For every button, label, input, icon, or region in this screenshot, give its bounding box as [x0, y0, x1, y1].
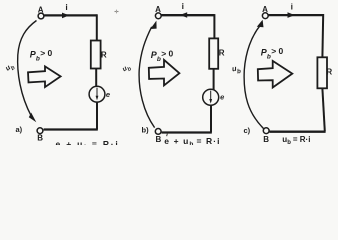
svg-text:a): a): [16, 125, 23, 134]
svg-text:B: B: [37, 134, 43, 143]
wire: source to bottom corner (b): [210, 105, 212, 132]
voltage arc u_b from B to A (c): [244, 20, 263, 129]
EMF source circle with arrow (a): [89, 86, 105, 102]
EMF source circle with arrow (b): [203, 89, 219, 105]
svg-text:R: R: [219, 49, 225, 58]
svg-text:R: R: [326, 67, 332, 76]
block arrow (c): [258, 61, 293, 88]
voltage arc u_b from A to B (a): [18, 21, 37, 123]
current arrow i (a): [62, 2, 69, 18]
scan tick above equation b: [166, 134, 169, 137]
wire: right branch upper (b): [213, 14, 215, 39]
wire: top (c): [268, 14, 323, 16]
wire: bottom (b): [162, 131, 212, 133]
wire: top (b): [162, 14, 215, 16]
wire: source to bottom corner (a): [96, 102, 98, 129]
svg-text:A: A: [155, 5, 161, 14]
wire: resistor to bottom corner (c): [322, 89, 324, 132]
wire: bottom (c): [269, 131, 325, 133]
wire: bottom (a): [44, 128, 98, 130]
resistor R (c): [317, 57, 332, 88]
svg-text:A: A: [262, 5, 268, 14]
svg-text:i: i: [291, 1, 293, 11]
wire: right branch upper (a): [96, 14, 98, 41]
svg-text:A: A: [38, 5, 44, 14]
wire: resistor to source (a): [95, 69, 97, 87]
wire: top (a): [44, 14, 96, 16]
node B (c): [263, 128, 269, 144]
svg-text:ub= R·i: ub= R·i: [282, 135, 310, 145]
svg-text:b): b): [142, 126, 150, 135]
node B (b): [155, 129, 161, 145]
block arrow (b): [149, 60, 180, 86]
current arrow i (c): [288, 1, 295, 18]
wire: right branch upper (c): [321, 14, 324, 58]
wire: resistor to source (b): [213, 69, 215, 90]
node A (c): [262, 5, 268, 18]
svg-text:i: i: [182, 1, 184, 11]
svg-text:c): c): [244, 126, 251, 135]
svg-text:e: e: [220, 93, 224, 102]
svg-text:i: i: [65, 2, 67, 12]
scan speck: [115, 10, 119, 14]
resistor R (a): [91, 41, 107, 69]
svg-text:R: R: [101, 50, 107, 59]
node A (a): [38, 5, 44, 19]
current arrow i pointing left (b): [180, 1, 187, 18]
block arrow (a): [28, 66, 61, 87]
svg-text:e: e: [106, 90, 110, 99]
resistor R (b): [209, 38, 225, 68]
svg-text:B: B: [263, 135, 269, 144]
voltage arc u_b from B to A (b): [139, 21, 157, 128]
node B (a): [37, 128, 43, 143]
node A (b): [155, 5, 161, 19]
svg-text:B: B: [156, 135, 162, 144]
